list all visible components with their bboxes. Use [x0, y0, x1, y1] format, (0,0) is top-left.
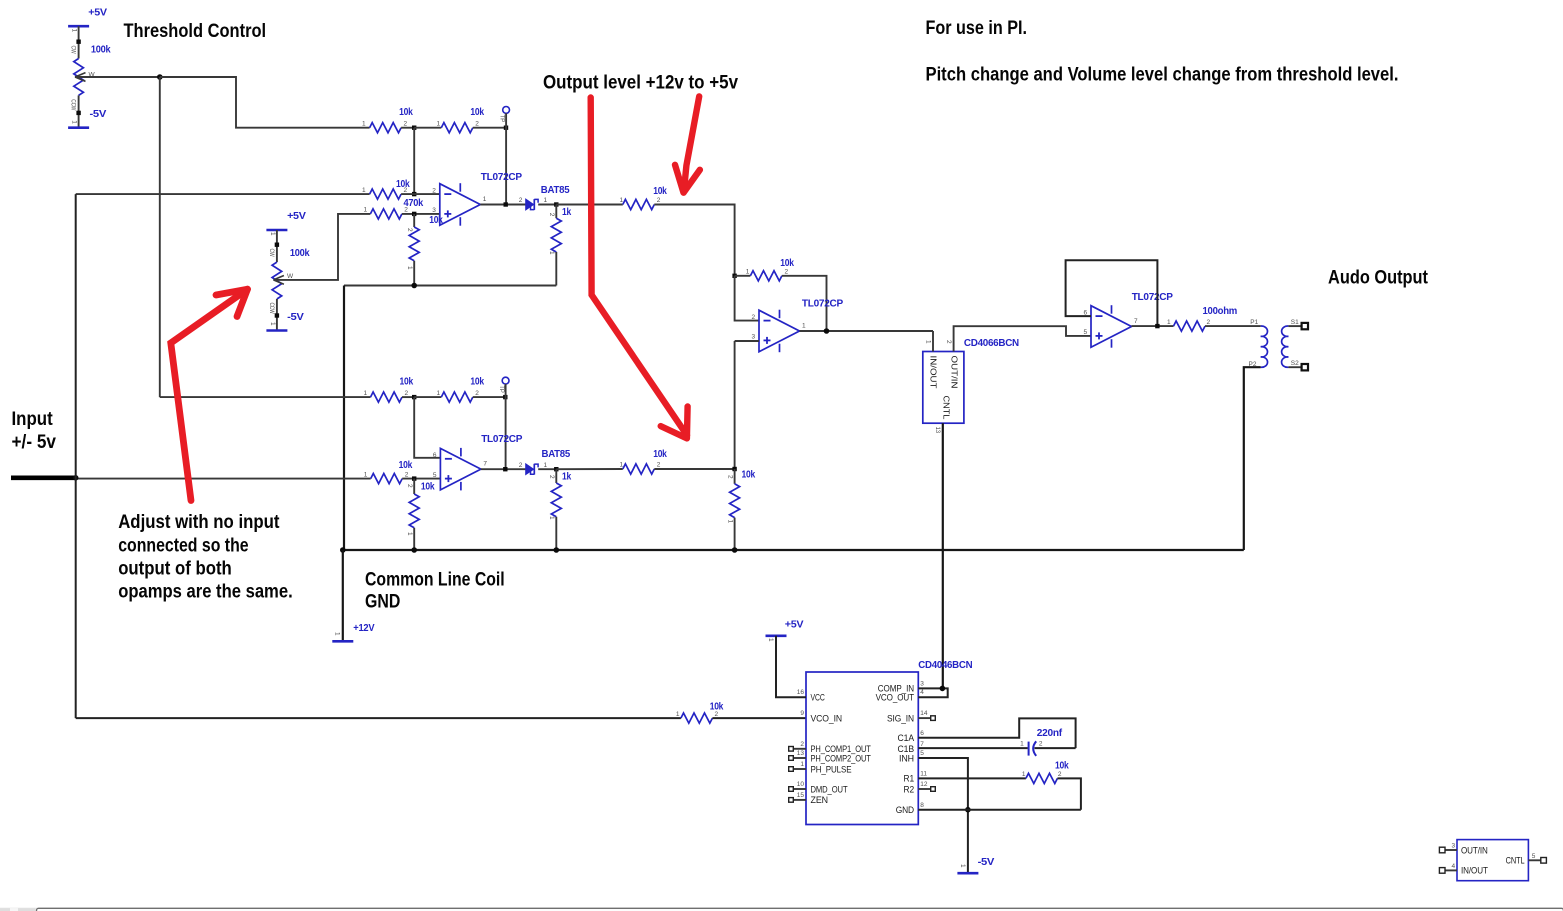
- svg-text:TP: TP: [498, 115, 505, 123]
- junction D2 cathode: [554, 467, 558, 471]
- annotation: Threshold Control: [124, 20, 267, 42]
- svg-text:+5V: +5V: [287, 210, 306, 222]
- wire C1A loop: [918, 718, 1075, 748]
- svg-text:2: 2: [519, 197, 523, 204]
- svg-text:GND: GND: [365, 590, 400, 612]
- wire: [414, 127, 441, 129]
- pin 2 label: [752, 314, 756, 321]
- diode D2 BAT85: [526, 464, 538, 475]
- U4 pin 9: [800, 710, 804, 717]
- wire: [413, 528, 415, 550]
- svg-text:PH_COMP2_OUT: PH_COMP2_OUT: [811, 753, 872, 763]
- wire: [654, 468, 734, 470]
- R16 value 10k: [653, 448, 667, 460]
- resistor R14 10k (lower divider): [409, 494, 419, 528]
- svg-text:INH: INH: [899, 753, 914, 763]
- pot P2 wiper W label: [287, 273, 294, 280]
- U4 pin 14: [920, 710, 928, 717]
- wire PH_COMP2_OUT stub: [793, 757, 806, 759]
- R9 pin2: [785, 269, 789, 276]
- wire input row: [76, 478, 371, 480]
- svg-text:1: 1: [548, 251, 555, 255]
- R3 pin1: [437, 121, 441, 128]
- op-amp U2A part label: [802, 298, 843, 310]
- wire upper return line: [344, 285, 556, 287]
- resistor R9 10k (diff feedback): [750, 271, 782, 281]
- svg-text:VCO_OUT: VCO_OUT: [876, 693, 915, 703]
- junction: [412, 212, 416, 216]
- pot P2 wiper arrow: [273, 276, 284, 285]
- wire: [402, 396, 414, 398]
- svg-text:CD4066BCN: CD4066BCN: [964, 337, 1019, 349]
- pot P1 wiper W label: [89, 71, 96, 78]
- wire: [413, 479, 415, 494]
- R12 value 10k: [470, 376, 484, 388]
- U4 pin name R2: [904, 784, 915, 794]
- annotation: Output level +12v to +5v: [543, 71, 738, 93]
- wire: [556, 468, 623, 470]
- junction D1 cathode: [554, 202, 558, 206]
- junction COMP_IN/CNTL: [940, 686, 946, 692]
- R15 pin1 label: [548, 516, 555, 520]
- svg-text:10k: 10k: [653, 185, 667, 197]
- svg-text:1: 1: [802, 323, 806, 330]
- annotation line 1: [118, 511, 280, 533]
- wire U2B feedback loop: [1066, 260, 1158, 326]
- U4 pin 12: [920, 781, 928, 788]
- R4 value 10k: [396, 178, 410, 190]
- U4 pin name PH_COMP2_OUT: [811, 753, 872, 763]
- R19 pin2: [1058, 771, 1062, 778]
- unconnected pin PH_PULSE: [789, 767, 794, 772]
- U4 pin 7: [920, 741, 924, 748]
- svg-text:2: 2: [405, 471, 409, 478]
- R15 value 1k: [562, 471, 571, 483]
- wire: [555, 469, 557, 483]
- junction diff minus node: [732, 274, 736, 278]
- svg-text:1: 1: [544, 462, 548, 469]
- C1 value 220nf: [1037, 727, 1063, 739]
- U4 pin 2: [800, 741, 804, 748]
- analog switch U3A CD4066BCN: [923, 352, 964, 424]
- unconnected pin PH_COMP2_OUT: [789, 756, 794, 761]
- svg-text:CCW: CCW: [268, 303, 275, 315]
- wire: [734, 518, 736, 550]
- junction: [503, 395, 507, 399]
- R7 value 1k: [562, 206, 571, 218]
- op-amp U2B TL072CP (buffer): [1091, 305, 1132, 348]
- U3A pin1 label: [925, 340, 932, 344]
- R6 pin2 label: [406, 228, 413, 232]
- svg-text:TL072CP: TL072CP: [1132, 291, 1173, 303]
- terminal S1: [1302, 323, 1308, 329]
- wire: [555, 205, 557, 219]
- svg-text:2: 2: [548, 213, 555, 217]
- +5V power bar (pot P2 top): [266, 229, 287, 232]
- svg-text:7: 7: [1134, 318, 1138, 325]
- pin 1 label: [802, 323, 806, 330]
- pin 5 label: [433, 472, 437, 479]
- pot P1 wiper arrow: [75, 73, 86, 82]
- svg-text:TP: TP: [498, 385, 505, 393]
- junction input node: [73, 475, 79, 481]
- U4 pin name PH_PULSE: [811, 764, 852, 774]
- +5V pin1 label (U4): [767, 638, 774, 642]
- +12V power bar: [332, 640, 353, 643]
- U3B pin 3: [1452, 843, 1456, 850]
- diode D1 label BAT85: [541, 184, 570, 196]
- wire T1 P2 to common line: [1244, 367, 1261, 550]
- svg-text:7: 7: [483, 461, 487, 468]
- svg-text:SIG_IN: SIG_IN: [887, 713, 914, 723]
- svg-text:13: 13: [934, 427, 941, 434]
- svg-text:Output level +12v to +5v: Output level +12v to +5v: [543, 71, 738, 93]
- svg-text:1: 1: [71, 120, 78, 124]
- svg-text:2: 2: [475, 121, 479, 128]
- svg-text:-5V: -5V: [978, 856, 995, 868]
- svg-text:470k: 470k: [404, 197, 424, 209]
- wire R2 stub: [918, 788, 931, 790]
- svg-text:CW: CW: [268, 249, 275, 258]
- R17 value 10k: [742, 469, 756, 481]
- resistor R3 10k (upper feedback): [441, 123, 473, 133]
- svg-text:6: 6: [433, 452, 437, 459]
- TP2 label: [498, 385, 505, 393]
- junction: [411, 547, 417, 553]
- svg-text:Input: Input: [12, 408, 54, 430]
- junction: [412, 476, 416, 480]
- wire U3A pin2 to U2B: [954, 326, 1091, 351]
- wire node A down to lower channel: [159, 77, 161, 397]
- R5 value 470k: [404, 197, 424, 209]
- wire to transformer P1: [1205, 325, 1261, 327]
- svg-text:2: 2: [475, 390, 479, 397]
- svg-text:10k: 10k: [400, 376, 414, 388]
- diode D2 label BAT85: [542, 448, 571, 460]
- svg-text:2: 2: [1207, 319, 1211, 326]
- U4 pin name COMP_IN: [878, 684, 914, 694]
- svg-text:15: 15: [797, 792, 805, 799]
- resistor R8 10k (upper sum): [623, 199, 655, 209]
- pot P1 CW label: [70, 46, 77, 55]
- R8 pin2: [657, 197, 661, 204]
- svg-text:2: 2: [657, 462, 661, 469]
- resistor R5 470k: [370, 209, 402, 219]
- wire common line: [343, 549, 1244, 551]
- annotation: Audo Output: [1328, 267, 1428, 289]
- svg-text:1: 1: [483, 196, 487, 203]
- +5V power bar (U4): [766, 634, 787, 637]
- wire pot P1 wiper to node A: [76, 76, 160, 78]
- R2 pin1: [362, 121, 366, 128]
- resistor R18 10k (VCO_IN): [681, 713, 713, 723]
- junction feedback: [824, 328, 830, 334]
- U4 pin name PH_COMP1_OUT: [811, 744, 872, 754]
- svg-text:3: 3: [1452, 843, 1456, 850]
- wire U1B output to D2: [481, 468, 526, 470]
- +12V pin1 label: [334, 632, 341, 636]
- wire to U2A inverting input: [735, 276, 759, 321]
- svg-text:1: 1: [800, 761, 804, 768]
- wire to U2A non-inverting input: [735, 340, 759, 342]
- svg-text:For use in PI.: For use in PI.: [926, 17, 1028, 39]
- wire input to R4: [76, 193, 370, 195]
- svg-text:OUT/IN: OUT/IN: [950, 356, 960, 389]
- svg-text:1: 1: [364, 471, 368, 478]
- R3 value 10k: [470, 106, 484, 118]
- +5V power bar (pot P1 top): [68, 25, 89, 28]
- T1 S2 label: [1291, 360, 1299, 367]
- red annotation arrow 3 (to pot P2): [171, 289, 248, 500]
- capacitor C1 220nf: [1029, 741, 1037, 756]
- wire pot P2 top lead: [276, 230, 278, 262]
- R8 pin1: [620, 197, 624, 204]
- junction: [732, 547, 738, 553]
- junction GND/-5V: [965, 807, 971, 813]
- svg-text:10k: 10k: [396, 178, 410, 190]
- wire T1 S1 stub: [1288, 325, 1302, 327]
- wire feedback to U2A output: [782, 276, 827, 331]
- svg-text:1: 1: [437, 121, 441, 128]
- unconnected pin DMD_OUT: [789, 787, 794, 792]
- junction: [412, 192, 416, 196]
- pot P2 CW label: [268, 249, 275, 258]
- svg-text:ZEN: ZEN: [811, 795, 829, 805]
- U4 pin 10: [797, 781, 805, 788]
- wire pot P2 bottom lead: [276, 299, 278, 331]
- wire: [473, 127, 506, 129]
- svg-text:3: 3: [752, 334, 756, 341]
- svg-text:10k: 10k: [710, 700, 724, 712]
- svg-text:3: 3: [920, 680, 924, 687]
- junction diff plus node: [732, 467, 736, 471]
- D1 pin1: [544, 197, 548, 204]
- R11 value 10k: [400, 376, 414, 388]
- svg-text:1: 1: [746, 269, 750, 276]
- +5V label (U4): [785, 618, 804, 630]
- wire: [414, 396, 441, 398]
- svg-text:TL072CP: TL072CP: [802, 298, 843, 310]
- svg-text:1: 1: [959, 864, 966, 868]
- svg-text:VCO_IN: VCO_IN: [811, 713, 843, 723]
- R12 pin1: [437, 390, 441, 397]
- svg-text:7: 7: [920, 741, 924, 748]
- R9 pin1: [746, 269, 750, 276]
- U4 pin name SIG_IN: [887, 713, 914, 723]
- svg-text:1: 1: [362, 121, 366, 128]
- annotation: For use in PI.: [926, 17, 1028, 39]
- wire: [555, 252, 557, 286]
- op-amp U1A part label TL072CP: [481, 171, 522, 183]
- R8 value 10k: [653, 185, 667, 197]
- svg-text:1: 1: [548, 516, 555, 520]
- wire U2A output: [800, 330, 934, 332]
- svg-text:6: 6: [920, 730, 924, 737]
- junction: [504, 126, 508, 130]
- pot P2 body (100k): [272, 262, 282, 299]
- svg-text:Adjust with no input: Adjust with no input: [118, 511, 280, 533]
- wire to U1B inverting input: [414, 397, 440, 458]
- U4 pin 3: [920, 680, 924, 687]
- svg-text:5: 5: [1532, 853, 1536, 860]
- svg-text:BAT85: BAT85: [542, 448, 571, 460]
- wire: [555, 517, 557, 550]
- pot P1 pin 1 label: [71, 29, 78, 33]
- pot P1 bottom pin 1 label: [71, 120, 78, 124]
- pot P2 bottom pin1 label: [269, 322, 276, 326]
- U3B pin name OUT/IN: [1461, 845, 1488, 855]
- +5V label (pot P2): [287, 210, 306, 222]
- svg-text:8: 8: [920, 802, 924, 809]
- svg-text:1: 1: [925, 340, 932, 344]
- R14 pin1 label: [406, 532, 413, 536]
- R2 value 10k: [399, 106, 413, 118]
- unconnected pin U3B pin4: [1439, 868, 1445, 874]
- svg-text:CD4046BCN: CD4046BCN: [918, 659, 972, 671]
- svg-text:opamps are the same.: opamps are the same.: [118, 580, 293, 602]
- svg-text:IN/OUT: IN/OUT: [1461, 866, 1488, 876]
- R10 value 100ohm: [1203, 305, 1238, 317]
- R5 pin2: [404, 207, 408, 214]
- unconnected pin R2: [931, 787, 936, 792]
- svg-text:2: 2: [752, 314, 756, 321]
- R2 pin2: [404, 121, 408, 128]
- U4 pin name C1B: [898, 744, 915, 754]
- resistor R6 10k (upper divider): [409, 227, 419, 261]
- wire DMD_OUT stub: [793, 788, 806, 790]
- R9 value 10k: [780, 257, 794, 269]
- svg-text:1: 1: [1167, 319, 1171, 326]
- pin 7 label: [483, 461, 487, 468]
- svg-text:1: 1: [364, 390, 368, 397]
- svg-text:+12V: +12V: [353, 622, 374, 634]
- D2 pin1: [544, 462, 548, 469]
- R11 pin2: [405, 390, 409, 397]
- wire to op-amp U1A non-inverting input: [402, 213, 440, 215]
- svg-text:2: 2: [406, 228, 413, 232]
- svg-text:10k: 10k: [653, 448, 667, 460]
- svg-text:+5V: +5V: [88, 7, 107, 19]
- svg-text:1k: 1k: [562, 206, 571, 218]
- transformer T1 secondary winding: [1282, 326, 1289, 367]
- analog switch U3B CD4066BCN body: [1457, 840, 1528, 881]
- svg-text:4: 4: [1452, 863, 1456, 870]
- diode D1 BAT85: [526, 199, 538, 210]
- C1 pin2: [1039, 741, 1043, 748]
- resistor R2 10k (upper offset): [370, 123, 402, 133]
- svg-text:2: 2: [405, 390, 409, 397]
- annotation: GND: [365, 590, 400, 612]
- resistor R10 100ohm: [1174, 321, 1206, 331]
- wire pot P1 bottom lead: [78, 95, 80, 127]
- svg-text:13: 13: [797, 750, 805, 757]
- wire U3A pin1 stub: [932, 331, 934, 352]
- annotation line 3: [118, 558, 232, 580]
- svg-text:1: 1: [1022, 771, 1026, 778]
- svg-text:-5V: -5V: [287, 311, 304, 323]
- TP1 label: [498, 115, 505, 123]
- window scrollbar strip: [0, 908, 1563, 911]
- svg-text:Audo Output: Audo Output: [1328, 267, 1428, 289]
- R11 pin1: [364, 390, 368, 397]
- R4 pin1: [362, 187, 366, 194]
- R14 value 10k: [421, 481, 435, 493]
- svg-text:2: 2: [432, 187, 436, 194]
- wire capacitor to loop: [1035, 747, 1076, 749]
- U4 pin name INH: [899, 753, 914, 763]
- svg-text:1: 1: [334, 632, 341, 636]
- wire input vertical bus: [75, 194, 77, 718]
- svg-text:+/- 5v: +/- 5v: [12, 431, 57, 453]
- svg-text:CNTL: CNTL: [1506, 855, 1525, 865]
- U4 pin 4: [920, 689, 924, 696]
- -5V label (U4): [978, 856, 995, 868]
- wire R19 down to GND line: [1057, 778, 1081, 809]
- test point TP2: [502, 377, 509, 384]
- pin 6 label: [433, 452, 437, 459]
- pot P1 CW pad: [76, 40, 80, 44]
- wire input to VCO_IN resistor: [76, 717, 681, 719]
- U4 pin 6: [920, 730, 924, 737]
- U3A pin name OUT/IN: [950, 356, 960, 389]
- svg-text:10: 10: [797, 781, 805, 788]
- junction: [554, 547, 560, 553]
- -5V power bar (pot P2 bottom): [266, 329, 287, 332]
- resistor R11 10k (lower offset): [371, 392, 403, 402]
- svg-text:2: 2: [945, 340, 952, 344]
- wire pot P2 wiper to 470k: [275, 214, 371, 280]
- pot P1 value 100k: [91, 44, 111, 56]
- R16 pin2: [657, 462, 661, 469]
- wire U1A output to diode D1: [480, 204, 525, 206]
- svg-text:2: 2: [404, 121, 408, 128]
- svg-text:100k: 100k: [290, 247, 310, 259]
- resistor R19 10k (R1): [1026, 773, 1058, 783]
- svg-text:2: 2: [519, 462, 523, 469]
- svg-text:2: 2: [406, 484, 413, 488]
- svg-text:CW: CW: [70, 46, 77, 55]
- U3A pin name CNTL: [941, 396, 951, 420]
- wire to U1B non-inverting input: [402, 478, 440, 480]
- svg-text:CNTL: CNTL: [941, 396, 951, 420]
- resistor R7 1k (upper): [551, 218, 561, 252]
- svg-text:VCC: VCC: [811, 693, 826, 703]
- R19 pin1: [1022, 771, 1026, 778]
- U4 pin name VCC: [811, 693, 826, 703]
- junction: [411, 283, 417, 289]
- U4 pin name GND: [896, 805, 914, 815]
- wire U3B pin3 stub: [1445, 849, 1457, 851]
- wire +5V to VCC: [776, 636, 806, 697]
- svg-text:Common Line Coil: Common Line Coil: [365, 568, 505, 590]
- svg-text:1: 1: [767, 638, 774, 642]
- terminal S2: [1302, 364, 1308, 370]
- R7 pin1 label: [548, 251, 555, 255]
- op-amp U1A TL072CP: [440, 183, 481, 226]
- svg-text:GND: GND: [896, 805, 914, 815]
- svg-text:C1A: C1A: [898, 733, 915, 743]
- R10 pin2: [1207, 319, 1211, 326]
- svg-text:P1: P1: [1250, 319, 1258, 326]
- input terminal stub: [11, 475, 76, 480]
- annotation: Input: [12, 408, 54, 430]
- svg-text:OUT/IN: OUT/IN: [1461, 845, 1488, 855]
- unconnected pin PH_COMP1_OUT: [789, 747, 794, 752]
- svg-text:10k: 10k: [399, 106, 413, 118]
- pin 1 label: [483, 196, 487, 203]
- R15 pin2 label: [548, 475, 555, 479]
- wire: [538, 468, 556, 470]
